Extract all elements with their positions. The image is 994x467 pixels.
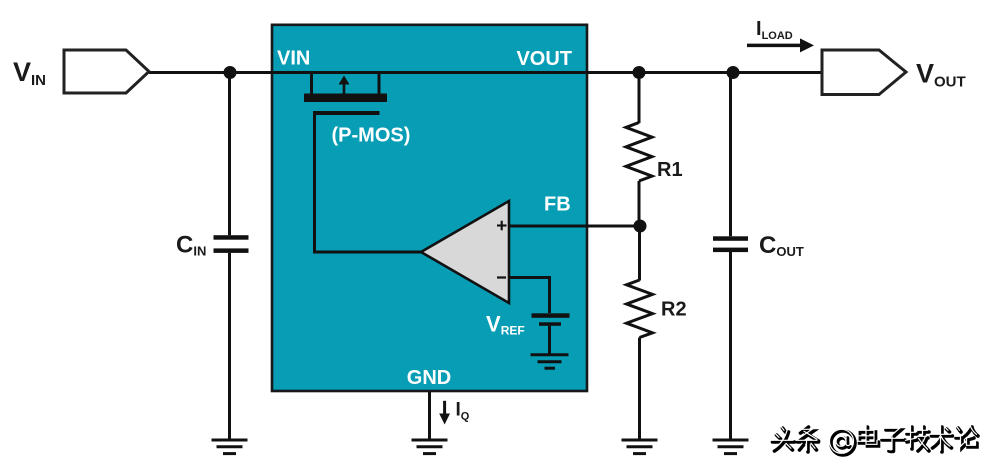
pin plus <box>497 221 507 231</box>
op-amp U2 error amplifier <box>421 201 509 303</box>
ground VREF <box>531 355 569 369</box>
ground GND pin <box>412 440 448 454</box>
resistor R2 <box>627 226 653 439</box>
svg-text:R1: R1 <box>657 159 683 181</box>
wire source drop <box>310 71 313 95</box>
arrow IQ <box>439 401 450 425</box>
pin minus <box>497 276 506 278</box>
svg-text:VIN: VIN <box>277 48 310 70</box>
port VIN chevron <box>64 50 149 93</box>
gate bar <box>313 111 380 115</box>
LDO IC block U1 <box>272 25 587 391</box>
node VIN junction <box>224 66 237 79</box>
body arrow <box>343 82 346 94</box>
wire drain rise <box>378 71 381 95</box>
svg-text:GND: GND <box>407 367 451 389</box>
wire gate to op-amp output <box>315 113 422 252</box>
svg-text:FB: FB <box>544 194 571 216</box>
arrow ILOAD <box>747 38 814 52</box>
ground CIN <box>212 440 248 454</box>
resistor R1 <box>626 73 652 227</box>
wire GND pin <box>428 391 431 439</box>
transistor Q1 PMOS pass element <box>304 71 387 115</box>
wire FB from op-amp plus input to divider <box>509 225 640 228</box>
wire minus input to VREF <box>509 278 550 314</box>
node COUT junction <box>727 66 740 79</box>
svg-text:R2: R2 <box>661 299 687 321</box>
ground R2 <box>622 440 658 454</box>
ground COUT <box>713 440 749 454</box>
channel bar <box>304 94 387 103</box>
wire CIN bottom <box>228 253 231 439</box>
node FB junction <box>634 220 647 233</box>
wire VREF to ground <box>548 326 551 354</box>
node R1 top junction <box>633 66 646 79</box>
capacitor COUT <box>713 73 748 440</box>
voltage reference VREF battery <box>532 313 570 326</box>
capacitor CIN <box>214 73 249 440</box>
svg-text:VOUT: VOUT <box>516 48 572 70</box>
wire top rail VIN to VOUT <box>149 71 822 74</box>
port VOUT chevron <box>822 50 906 95</box>
wire CIN top <box>228 73 231 236</box>
svg-text:(P-MOS): (P-MOS) <box>332 125 411 147</box>
plates <box>214 235 249 240</box>
